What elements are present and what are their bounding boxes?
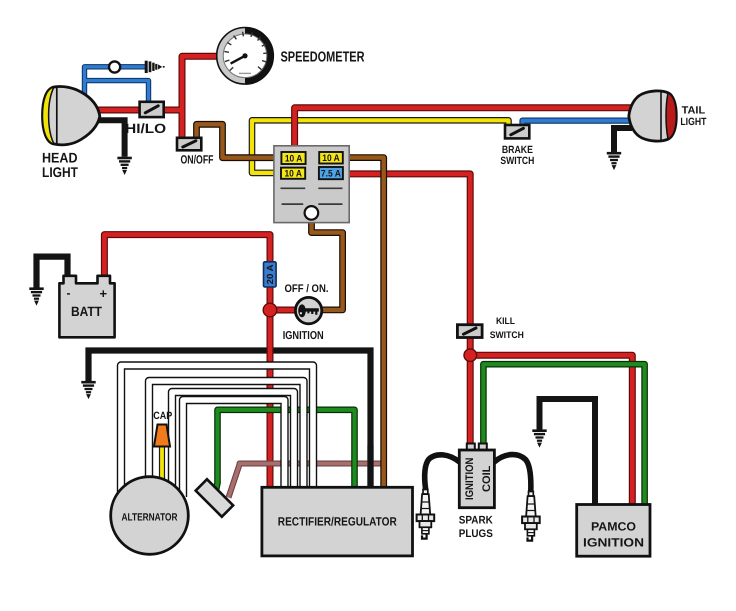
tail light <box>629 91 677 141</box>
ground: rectifier black wire <box>81 382 95 398</box>
spark plug wire left <box>425 455 460 489</box>
ground: PAMCO wire <box>532 431 546 447</box>
brake switch <box>505 125 529 138</box>
svg-text:SPARK: SPARK <box>459 515 493 527</box>
svg-text:SWITCH: SWITCH <box>500 155 534 167</box>
battery <box>59 276 114 338</box>
svg-text:ON/OFF: ON/OFF <box>181 152 214 166</box>
wire: black headlight ground lead <box>98 120 125 157</box>
wire: red battery main feed <box>104 235 296 488</box>
wire: green alternator to rectifier <box>216 410 355 492</box>
wire: brown ON/OFF switch to fuse <box>197 124 282 157</box>
PAMCO ignition box <box>577 505 650 557</box>
spark plug wire right <box>494 455 531 491</box>
svg-text:LIGHT: LIGHT <box>680 116 706 128</box>
wire: white alternator phase 1 <box>121 366 313 496</box>
svg-text:IGNITION: IGNITION <box>464 458 476 501</box>
wire: yellow fuse/brake rail <box>252 120 509 173</box>
wire: white alternator phase 3 <box>172 392 294 490</box>
wire: green coil to PAMCO <box>483 364 644 505</box>
rectifier/regulator <box>262 487 413 556</box>
wire: brown fuse box to ignition switch <box>312 220 343 310</box>
svg-text:SPEEDOMETER: SPEEDOMETER <box>281 50 365 66</box>
ignition coil <box>459 444 494 508</box>
svg-text:ALTERNATOR: ALTERNATOR <box>122 512 178 524</box>
svg-text:10 A: 10 A <box>322 153 340 164</box>
wire: red headlight feed <box>97 56 218 138</box>
fuse 10A top-left <box>281 152 305 164</box>
svg-text:COIL: COIL <box>481 465 493 492</box>
svg-text:CAP: CAP <box>153 410 172 422</box>
fuse box bottom circle <box>305 206 319 220</box>
switch ON/OFF <box>177 138 201 151</box>
wire: black ground vertical over rose <box>367 445 373 488</box>
spark plug right <box>522 492 540 541</box>
wire: black battery negative lead <box>37 257 68 288</box>
svg-text:PAMCO: PAMCO <box>591 520 636 534</box>
wire: red top rail fuse to tail light <box>295 108 634 152</box>
wire: red kill junction to PAMCO <box>470 355 632 505</box>
wire: black tail light ground lead <box>614 128 632 152</box>
svg-text:IGNITION: IGNITION <box>583 535 644 549</box>
svg-text:7.5 A: 7.5 A <box>321 169 341 180</box>
connector block diagonal <box>196 479 233 516</box>
svg-text:TAIL: TAIL <box>682 105 706 117</box>
svg-text:HEAD: HEAD <box>42 149 78 165</box>
switch HI/LO <box>140 102 164 117</box>
svg-text:-: - <box>67 286 71 300</box>
wire: blue brake-to-tail <box>523 121 635 127</box>
junction circle on blue wire <box>109 61 120 72</box>
svg-text:10 A: 10 A <box>284 169 302 180</box>
wire: white alternator phase 4 <box>183 400 285 497</box>
ground: battery <box>29 289 43 305</box>
wire: white alternator phase 2 <box>149 381 304 488</box>
svg-text:BATT: BATT <box>71 304 103 319</box>
svg-text:LIGHT: LIGHT <box>42 164 78 180</box>
wire: red fuse to kill switch to coil <box>343 174 470 446</box>
junction dot kill switch <box>464 349 477 362</box>
svg-text:IGNITION: IGNITION <box>283 330 324 342</box>
svg-text:PLUGS: PLUGS <box>459 528 493 540</box>
fuse box <box>274 146 349 223</box>
kill switch <box>457 325 482 338</box>
wire: black PAMCO ground lead <box>540 399 596 505</box>
ground: headlight <box>117 158 131 174</box>
svg-text:BRAKE: BRAKE <box>502 144 533 156</box>
junction dot battery/ignition <box>263 303 277 317</box>
spark plug left <box>417 490 435 539</box>
ignition switch <box>295 297 321 323</box>
fuse 10A top-right <box>319 152 343 164</box>
wire: yellow cap lead <box>159 446 165 484</box>
wire: rose trigger wire <box>229 464 387 498</box>
wire: blue headlight dimmer <box>85 67 149 103</box>
svg-text:20 A: 20 A <box>265 264 275 285</box>
ground: tail light <box>607 153 621 169</box>
svg-text:+: + <box>100 286 108 301</box>
wire: black chassis ground to rectifier <box>89 351 371 488</box>
svg-text:SWITCH: SWITCH <box>490 330 524 341</box>
svg-text:RECTIFIER/REGULATOR: RECTIFIER/REGULATOR <box>278 514 397 528</box>
svg-text:OFF / ON.: OFF / ON. <box>285 283 329 295</box>
svg-text:10 A: 10 A <box>285 153 303 164</box>
bolt symbol at blue wire end <box>146 61 164 73</box>
svg-text:KILL: KILL <box>496 316 515 327</box>
fuse 7.5A <box>319 167 343 180</box>
wire: brown fuse to rectifier <box>343 158 384 488</box>
fuse 10A bottom-left <box>281 168 305 180</box>
headlight <box>43 87 100 145</box>
speedometer <box>217 28 274 85</box>
capacitor CAP <box>153 410 172 447</box>
svg-text:HI/LO: HI/LO <box>125 121 166 136</box>
alternator <box>111 477 189 555</box>
fuse 20A on battery feed <box>264 262 277 287</box>
